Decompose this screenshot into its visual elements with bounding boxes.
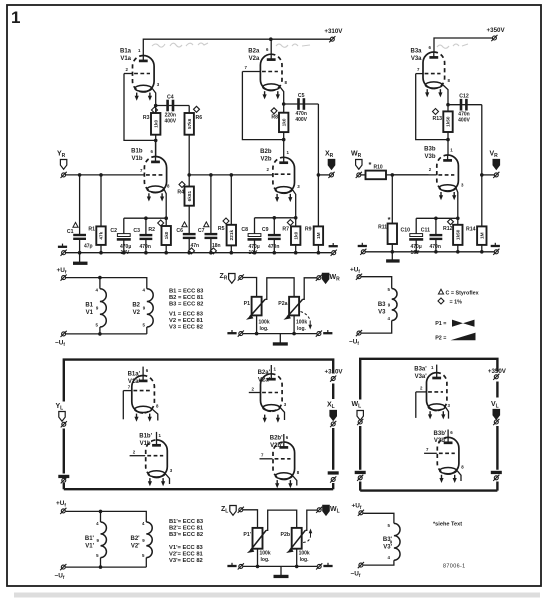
triode B1a'/V1a': [123, 367, 158, 421]
ground symbol pots right: [323, 330, 332, 333]
svg-text:B3 = ECC 82: B3 = ECC 82: [169, 302, 203, 308]
wire P1 wiper to P2a: [265, 278, 294, 300]
heater winding B3'/V3': [394, 523, 400, 560]
terminal YL: [61, 421, 67, 427]
svg-text:B1b': B1b': [139, 434, 152, 440]
potentiometer P2a: [284, 297, 303, 320]
capacitor C5: [299, 98, 304, 110]
svg-text:1M: 1M: [480, 232, 485, 239]
svg-text:C7: C7: [198, 228, 205, 234]
wire C5 to XR node and R9: [317, 104, 319, 226]
wire to XR terminal: [318, 174, 329, 176]
wire B2a grid feedback: [242, 72, 283, 140]
svg-text:V3b': V3b': [434, 438, 447, 444]
wire R5 column: [230, 175, 232, 253]
label B3b'/V3b': [434, 431, 447, 444]
ground symbol right section left: [358, 243, 367, 246]
tube type list lower: [169, 519, 204, 564]
terminal XL: [330, 421, 336, 427]
heater pins B3a: [425, 89, 442, 97]
wire P2a wiper to WR: [303, 278, 317, 300]
svg-text:R3: R3: [143, 115, 150, 121]
svg-text:R1: R1: [88, 227, 95, 233]
chassis bar lower pots: [274, 575, 289, 578]
wire R2 to ground: [165, 245, 167, 253]
wire pots ground rail: [243, 333, 317, 335]
wire C1 column: [79, 175, 81, 253]
terminal WL output: [316, 507, 322, 513]
capacitor C1: [73, 235, 86, 239]
wire -Uf rail upper: [66, 333, 147, 335]
wire rail to R4: [188, 175, 190, 187]
wire ground rail left section: [66, 252, 331, 254]
1% mark for R12: [448, 219, 454, 225]
junction P2a ground: [292, 332, 296, 336]
terminal ZR: [238, 274, 244, 280]
junction ground rail x=231.3: [230, 251, 234, 255]
triode B2a'/V2a': [249, 365, 285, 420]
svg-text:V3b: V3b: [424, 154, 435, 160]
wire C7 column: [210, 175, 212, 253]
resistor R10: [366, 171, 387, 180]
capacitor C11: [430, 235, 443, 239]
label B2a/V2a: [248, 49, 260, 62]
wire C10 column: [415, 218, 417, 252]
wire R11 to chassis: [391, 244, 393, 260]
ground symbol lower pots right: [323, 563, 332, 566]
terminal ground XL side: [330, 476, 336, 482]
triode B1b'/V1b': [130, 432, 170, 484]
wire C12 to VR node and R14: [481, 105, 483, 227]
junction R8 bottom / B2b anode / feedback: [282, 138, 286, 142]
svg-text:V2'= ECC 81: V2'= ECC 81: [169, 552, 204, 558]
junction ground rail x=123.8: [122, 251, 126, 255]
svg-text:B2': B2': [130, 536, 140, 542]
chassis bar pots: [273, 342, 288, 345]
terminal +350V lower: [493, 374, 499, 380]
capacitor C3: [140, 235, 153, 239]
svg-text:log.: log.: [260, 326, 269, 332]
resistor R9: [314, 226, 323, 245]
electrolytic C2: [117, 234, 131, 240]
wire through C5: [284, 103, 319, 105]
pencil note near B2a: [276, 44, 310, 47]
wire R13 to B3b anode: [447, 132, 449, 155]
wire R14 to ground: [481, 245, 483, 252]
svg-text:V1': V1': [85, 543, 94, 549]
svg-text:1k0: 1k0: [153, 120, 158, 128]
svg-text:B2 = ECC 81: B2 = ECC 81: [169, 295, 204, 301]
1% mark for R2: [158, 220, 164, 226]
left channel box outline: [64, 360, 333, 490]
terminal +Uf upper left: [61, 275, 67, 281]
wire R4 to C6: [188, 206, 190, 253]
wire C4 to R6: [188, 106, 190, 135]
svg-text:C5: C5: [298, 93, 305, 99]
svg-text:57k6: 57k6: [187, 118, 192, 129]
label B1b'/V1b': [139, 434, 152, 447]
label B3b/V3b: [424, 147, 436, 160]
capacitor C7: [205, 234, 218, 238]
svg-text:V3'= ECC 82: V3'= ECC 82: [169, 558, 203, 564]
terminal WL box: [357, 419, 363, 425]
junction R2 top / B1b cathode: [164, 216, 168, 220]
signal arrow WL box: [357, 411, 363, 421]
junction R10 / R11: [391, 173, 395, 177]
svg-text:B3a: B3a: [410, 49, 422, 55]
terminal ground YL side: [61, 477, 67, 483]
triode B1a/V1a: [124, 56, 156, 106]
svg-text:R9: R9: [305, 227, 312, 233]
svg-text:B2'= ECC 81: B2'= ECC 81: [169, 526, 204, 532]
wire cathode node B2b: [255, 217, 296, 219]
label B3/V3: [378, 302, 386, 315]
terminal pots ground right: [316, 331, 322, 337]
triode B2a/V2a: [242, 39, 283, 104]
1% mark for C7: [210, 248, 216, 254]
wire +Uf rail lower: [66, 511, 147, 522]
svg-text:V1: V1: [86, 310, 94, 316]
junction R1 top: [99, 173, 103, 177]
heater pins B2b: [275, 194, 292, 202]
svg-text:V2b: V2b: [260, 156, 271, 162]
svg-text:1k50: 1k50: [456, 229, 461, 240]
wire C11 column: [435, 218, 437, 252]
wire R9 to ground: [317, 245, 319, 253]
potentiometer P2b: [286, 528, 305, 553]
wire WR to R10: [361, 174, 366, 176]
signal arrow WR input: [356, 160, 362, 170]
junction C3 top: [144, 216, 148, 220]
junction R3 bottom / B1b anode / feedback: [154, 139, 158, 143]
terminal +Uf B3: [356, 274, 362, 280]
svg-text:B1: B1: [85, 303, 93, 309]
svg-text:B1 = ECC 83: B1 = ECC 83: [169, 289, 204, 295]
wire ZR to P1: [243, 278, 257, 297]
wire through C4: [156, 105, 190, 107]
terminal ground right end: [331, 250, 337, 256]
electrolytic C8: [248, 234, 262, 240]
svg-text:B3b': B3b': [434, 431, 447, 437]
wire +Uf to B3 winding: [361, 277, 391, 289]
svg-text:C9: C9: [262, 227, 269, 233]
label B2a'/V2a': [258, 370, 271, 383]
signal arrow VR: [493, 160, 499, 170]
svg-text:+310V: +310V: [324, 368, 343, 375]
svg-text:R13: R13: [432, 116, 442, 122]
svg-text:C8: C8: [241, 227, 248, 233]
1% mark for R8: [271, 108, 277, 114]
junction right ground rail x=481.8: [480, 250, 484, 254]
svg-text:C2: C2: [110, 228, 117, 234]
svg-text:+310V: +310V: [324, 28, 343, 35]
svg-text:470n: 470n: [140, 244, 151, 250]
svg-text:V1'= ECC 83: V1'= ECC 83: [169, 545, 204, 551]
wire B3' winding to -Uf: [363, 560, 394, 565]
resistor R7: [291, 226, 300, 245]
terminal XR: [328, 172, 334, 178]
legend styroflex triangle: [438, 289, 443, 294]
junction ground rail x=295.7: [294, 251, 298, 255]
label B2b'/V2b': [270, 436, 283, 449]
triode B3a'/V3a': [416, 365, 449, 419]
label B3a'/V3a': [414, 367, 427, 380]
label B1b/V1b: [131, 149, 143, 162]
svg-text:B1a': B1a': [128, 372, 141, 378]
wire junction to R8: [283, 104, 285, 132]
svg-text:R5: R5: [218, 226, 225, 232]
heater winding B3/V3: [392, 289, 397, 321]
wire lower center to chassis: [280, 566, 282, 575]
svg-text:V1 = ECC 83: V1 = ECC 83: [169, 312, 204, 318]
svg-text:400V: 400V: [164, 118, 176, 124]
svg-text:*siehe Text: *siehe Text: [433, 522, 462, 528]
1% mark for R4: [179, 182, 185, 188]
label B1a/V1a: [120, 49, 132, 62]
1% mark for R5: [223, 218, 229, 224]
heater winding B2/V2: [147, 289, 153, 327]
1% mark for R13: [433, 109, 439, 115]
svg-text:V1a': V1a': [128, 379, 141, 385]
wire to VR terminal: [482, 174, 494, 176]
junction B1' winding bottom: [99, 565, 103, 569]
svg-text:V2 = ECC 81: V2 = ECC 81: [169, 318, 204, 324]
junction R13 bottom / B3b anode / feedback: [446, 138, 450, 142]
heater pins B1a: [135, 93, 152, 101]
triode B3b/V3b: [392, 155, 458, 218]
heater pins B3a': [428, 411, 445, 419]
svg-text:470n: 470n: [430, 244, 441, 250]
triode B3b'/V3b': [424, 430, 461, 482]
svg-text:400V: 400V: [295, 117, 307, 123]
terminal -Uf lower left: [60, 564, 66, 570]
junction right ground rail x=435.9: [434, 250, 438, 254]
svg-text:+350V: +350V: [488, 368, 507, 375]
1% mark for R3: [152, 107, 158, 113]
terminal ground VL side: [493, 475, 499, 481]
svg-text:V1b': V1b': [140, 441, 153, 447]
wire -Uf rail lower: [66, 566, 147, 568]
svg-text:V2: V2: [133, 310, 141, 316]
junction B3a cathode / R13 / C12: [446, 103, 450, 107]
heater pins B2a: [263, 91, 280, 99]
svg-text:6k81: 6k81: [187, 190, 192, 201]
ganged-track dashed arrow P2a: [301, 312, 311, 321]
svg-text:log.: log.: [297, 326, 306, 332]
wire R3 to B1b anode: [155, 135, 157, 158]
wire +Uf rail upper: [66, 278, 147, 289]
1% mark for R7: [287, 220, 293, 226]
junction P1 ground: [255, 332, 259, 336]
legend P2 ramp symbol: [451, 333, 476, 341]
wire R7 column: [295, 218, 297, 253]
terminal +310V lower: [330, 376, 336, 382]
svg-text:B3a': B3a': [414, 367, 427, 373]
svg-text:R6: R6: [196, 115, 203, 121]
terminal -Uf upper left: [61, 331, 67, 337]
wire B3 winding to -Uf: [361, 321, 391, 334]
wire P1' wiper to P2b: [266, 510, 297, 530]
svg-text:B3: B3: [378, 302, 386, 308]
signal arrow XR: [328, 160, 334, 170]
scan shadow bottom: [14, 593, 540, 598]
wire P2b wiper to WL: [305, 510, 317, 530]
terminal lower pots ground right: [316, 563, 322, 569]
svg-text:P1 =: P1 =: [435, 321, 446, 327]
triode B2b'/V2b': [260, 434, 297, 486]
terminal right ground left end: [360, 249, 366, 255]
junction right ground rail x=392.3: [391, 250, 395, 254]
svg-text:P1: P1: [244, 301, 250, 307]
wire P1 to ground: [256, 315, 258, 333]
svg-text:log.: log.: [300, 557, 309, 563]
svg-text:P2b: P2b: [280, 532, 290, 538]
svg-text:1k0: 1k0: [281, 118, 286, 126]
chassis bar VL side: [491, 471, 502, 474]
svg-text:B2b: B2b: [260, 149, 272, 155]
svg-text:B1'= ECC 83: B1'= ECC 83: [169, 519, 204, 525]
chassis bar WL side: [355, 471, 366, 474]
ground symbol pots left: [227, 330, 236, 333]
1% mark for C6: [189, 248, 195, 254]
wire R8 to B2b anode: [283, 132, 285, 157]
svg-text:1M: 1M: [316, 232, 321, 239]
svg-text:R4: R4: [177, 190, 184, 196]
wire R12 column: [457, 218, 459, 252]
wire B1a' grid stub: [122, 391, 124, 420]
svg-text:C = Styroflex: C = Styroflex: [446, 291, 479, 297]
wire node to R2: [165, 218, 167, 226]
label B2'/V2': [130, 536, 140, 549]
resistor R8: [279, 113, 288, 132]
wire ZL to P1': [243, 510, 258, 528]
wire B3a' grid stub: [415, 392, 417, 418]
terminal WR input: [356, 172, 362, 178]
chassis bar YL side: [58, 475, 69, 478]
terminal +350V: [491, 35, 497, 41]
wire cathode node B1b: [124, 217, 166, 219]
junction XR node: [317, 173, 321, 177]
svg-text:B3b: B3b: [424, 147, 436, 153]
tube type list upper: [169, 289, 204, 331]
signal arrow WL output: [323, 505, 329, 515]
signal arrow WR output: [322, 273, 328, 283]
capacitor C12: [461, 99, 466, 111]
svg-text:V3: V3: [378, 309, 386, 315]
svg-text:R12: R12: [443, 226, 453, 232]
terminal WR output: [316, 275, 322, 281]
svg-text:47k: 47k: [99, 231, 104, 239]
svg-text:1k0: 1k0: [164, 231, 169, 239]
wire junction to R13: [447, 105, 449, 132]
wire B1' winding bottom: [100, 558, 102, 568]
svg-text:V3a: V3a: [411, 56, 422, 62]
junction right ground rail x=416.2: [414, 250, 418, 254]
ground symbol right: [329, 243, 338, 246]
wire YR input rail: [66, 174, 143, 176]
terminal -Uf B3': [358, 562, 364, 568]
svg-text:1k50: 1k50: [446, 116, 451, 127]
svg-text:C10: C10: [400, 228, 410, 234]
ground symbol right section right: [491, 243, 500, 246]
junction ground rail x=79.6: [78, 251, 82, 255]
wire C2 column: [123, 218, 125, 253]
label B1/V1: [85, 303, 93, 316]
wire C9 column: [273, 218, 275, 253]
electrolytic C10: [409, 234, 423, 240]
capacitor C9: [268, 235, 281, 239]
svg-text:B2: B2: [132, 303, 140, 309]
terminal ZL: [238, 507, 244, 513]
styroflex mark C7: [204, 222, 209, 227]
svg-text:1k0: 1k0: [293, 231, 298, 239]
junction R5 top: [230, 173, 234, 177]
wire to B1 winding: [99, 278, 101, 289]
wire B2 winding bottom: [146, 327, 148, 334]
triode B3a/V3a: [416, 52, 448, 105]
terminal +310V: [329, 36, 335, 42]
junction B1' winding top: [99, 510, 103, 514]
wire cathode node B3b: [416, 217, 458, 219]
chassis bar XL side: [328, 471, 339, 474]
heater pins B3b: [439, 192, 456, 200]
svg-text:V3': V3': [383, 544, 392, 550]
junction ground rail x=166.2: [164, 251, 168, 255]
junction R6/R4/grid rail: [187, 173, 191, 177]
svg-text:V3 = ECC 82: V3 = ECC 82: [169, 325, 203, 331]
terminal VL: [493, 419, 499, 425]
terminal lower pots ground left: [238, 563, 244, 569]
svg-text:B3': B3': [383, 537, 393, 543]
wire R10 to B3b grid: [386, 174, 429, 176]
svg-text:log.: log.: [261, 557, 270, 563]
wire to B1' winding: [100, 511, 102, 522]
resistor R2: [162, 226, 171, 245]
1% mark for R6: [194, 106, 200, 112]
ground symbol left: [58, 244, 67, 247]
wire B2' winding bottom: [145, 558, 147, 568]
triode B1b/V1b: [143, 140, 167, 218]
svg-text:*: *: [369, 160, 372, 169]
svg-text:470n: 470n: [268, 244, 279, 250]
label B2b/V2b: [260, 149, 272, 162]
wire lower pots ground rail: [243, 565, 317, 567]
svg-text:+350V: +350V: [487, 27, 506, 34]
svg-text:C11: C11: [421, 228, 430, 234]
svg-text:V3a': V3a': [415, 374, 428, 380]
svg-text:R8: R8: [271, 115, 278, 121]
svg-text:V1b: V1b: [131, 156, 142, 162]
chassis bar below R11: [386, 259, 400, 262]
svg-text:C1: C1: [67, 229, 74, 235]
svg-text:87006-1: 87006-1: [443, 564, 466, 570]
resistor R12: [453, 225, 462, 245]
junction B2a anode to +310V rail: [269, 37, 273, 41]
svg-text:V2': V2': [131, 543, 140, 549]
svg-text:B2a': B2a': [258, 370, 271, 376]
styroflex mark C6: [182, 222, 187, 227]
wire ground rail right section: [366, 251, 495, 253]
signal arrow XL: [330, 411, 336, 421]
svg-text:P2a: P2a: [278, 301, 287, 307]
svg-text:R10: R10: [374, 165, 383, 171]
junction ground rail x=101.0: [99, 251, 103, 255]
wire C1 to chassis: [79, 253, 81, 262]
left channel B3 box outline: [360, 359, 497, 491]
svg-text:B2b': B2b': [270, 436, 283, 442]
heater pins B1b: [147, 193, 164, 201]
junction ground rail x=318.4: [317, 251, 321, 255]
